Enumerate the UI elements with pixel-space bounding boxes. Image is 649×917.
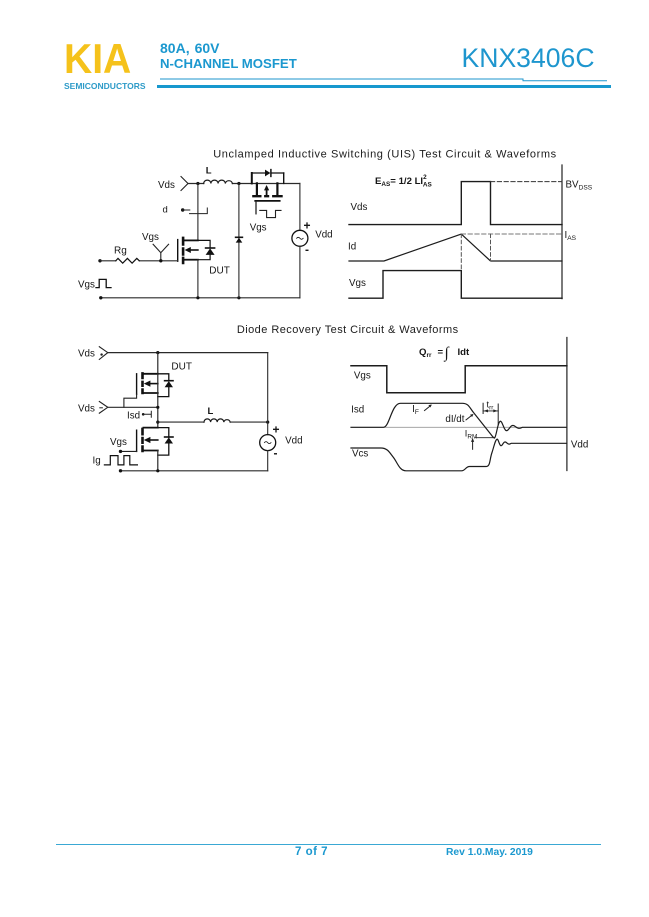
transistor Q2 (lower MOSFET) bbox=[137, 428, 158, 453]
wire: gate feed bbox=[100, 260, 178, 262]
diode D1 (clamp) bbox=[236, 238, 243, 243]
waveform Vgs trace bbox=[349, 271, 562, 299]
node: junction L wire / right rail bbox=[266, 421, 269, 424]
waveform axis (right vertical) bbox=[561, 165, 563, 299]
dashed IAS level bbox=[461, 233, 562, 235]
node Vds probe top bbox=[99, 347, 108, 360]
wire: DUT drain rail bbox=[197, 184, 199, 241]
wire: right rail lower bbox=[299, 246, 301, 297]
node d probe dot and step glyph bbox=[181, 208, 184, 211]
resistor Rg bbox=[116, 258, 139, 263]
svg-text:Vcs: Vcs bbox=[352, 449, 368, 460]
gate bar of Q1 bbox=[255, 200, 280, 202]
svg-text:d: d bbox=[163, 205, 168, 216]
svg-text:Unclamped Inductive Switching: Unclamped Inductive Switching (UIS) Test… bbox=[213, 149, 557, 161]
wire: right rail lower bbox=[267, 451, 269, 471]
node: junction bottom / source rail bbox=[156, 469, 159, 472]
wire: DUT source rail bbox=[197, 260, 199, 298]
svg-text:BVDSS: BVDSS bbox=[566, 180, 593, 192]
dashed marker at avalanche start bbox=[460, 234, 462, 271]
svg-text:-: - bbox=[274, 446, 278, 460]
svg-text:Qrr=: Qrr= bbox=[419, 347, 443, 359]
node Vds probe middle bbox=[99, 402, 108, 414]
source V1 Vdd bbox=[292, 230, 308, 246]
waveform Vgs2 trace bbox=[351, 366, 567, 393]
svg-text:∫: ∫ bbox=[444, 345, 451, 362]
wire: DUT2 gate tie to source bbox=[124, 394, 137, 407]
node: bottom left terminal bbox=[99, 296, 102, 299]
svg-text:Vds: Vds bbox=[351, 202, 368, 213]
svg-text:DUT: DUT bbox=[209, 266, 230, 277]
waveform Vds trace bbox=[349, 182, 562, 225]
wire: Q1 gate lead bbox=[255, 202, 257, 214]
svg-text:Vds: Vds bbox=[158, 180, 175, 191]
footer revision bbox=[446, 847, 533, 858]
wire: L branch bbox=[158, 421, 268, 423]
wire: bottom rail bbox=[121, 470, 268, 472]
svg-text:Vgs: Vgs bbox=[110, 437, 127, 448]
node: junction top wire / DUT drain bbox=[196, 182, 199, 185]
body diode of DUT bbox=[198, 240, 210, 259]
wire: top rail bbox=[108, 352, 268, 354]
wire: middle probe feed bbox=[108, 406, 158, 408]
svg-text:trr: trr bbox=[487, 399, 495, 411]
svg-text:Diode Recovery Test Circuit &: Diode Recovery Test Circuit & Waveforms bbox=[237, 324, 459, 336]
footer page number bbox=[295, 846, 328, 858]
header device type bbox=[160, 56, 297, 71]
wire: main vertical rail (drain) bbox=[157, 353, 159, 374]
node Vgs pulse glyph bbox=[96, 279, 111, 287]
node: junction bottom / clamp rail bbox=[237, 296, 240, 299]
waveform Id trace bbox=[349, 234, 562, 261]
svg-text:Idt: Idt bbox=[458, 347, 471, 358]
node Q1 gate pulse glyph bbox=[260, 210, 281, 217]
wire: bottom rail bbox=[101, 297, 300, 299]
svg-text:L: L bbox=[206, 166, 212, 177]
node: Q2 gate terminal bbox=[119, 450, 122, 453]
header rating line bbox=[160, 40, 220, 56]
svg-text:Vgs: Vgs bbox=[78, 280, 95, 291]
body diode of Q2 bbox=[158, 428, 169, 456]
svg-text:IAS: IAS bbox=[565, 230, 577, 242]
svg-text:DUT: DUT bbox=[171, 361, 192, 372]
inductor L2 bbox=[204, 419, 230, 422]
transistor DUT (N-MOSFET) bbox=[178, 237, 198, 265]
svg-text:+: + bbox=[304, 219, 311, 233]
wire: right rail upper bbox=[299, 183, 301, 230]
svg-text:Vdd: Vdd bbox=[285, 435, 302, 446]
transistor DUT2 (upper MOSFET) bbox=[137, 372, 158, 394]
node Vds probe (top left) bbox=[181, 177, 188, 191]
node: junction middle probe / rail bbox=[156, 406, 159, 409]
svg-text:Vdd: Vdd bbox=[571, 439, 588, 450]
waveform Vcs trace bbox=[351, 439, 567, 471]
node trr measure ticks bbox=[483, 403, 498, 424]
svg-text:Rg: Rg bbox=[114, 246, 127, 257]
wire: top rail bbox=[188, 183, 300, 185]
node: bottom left terminal bbox=[119, 469, 122, 472]
node: gate wire left terminal bbox=[98, 259, 101, 262]
wire: Q2 source rail bbox=[157, 451, 159, 471]
svg-text:-: - bbox=[305, 243, 309, 257]
svg-text:+: + bbox=[273, 423, 280, 437]
node Ig double pulse glyph bbox=[104, 456, 137, 465]
svg-text:Vgs: Vgs bbox=[354, 371, 371, 382]
dashed marker at avalanche end bbox=[490, 234, 492, 261]
dashed BVdss level bbox=[491, 181, 563, 183]
svg-text:Ig: Ig bbox=[93, 455, 101, 466]
svg-text:Vds: Vds bbox=[78, 403, 95, 414]
header thick rule bbox=[157, 85, 611, 88]
wire: right rail upper bbox=[267, 353, 269, 435]
svg-text:Vds: Vds bbox=[78, 349, 95, 360]
svg-text:Isd: Isd bbox=[127, 410, 140, 421]
svg-text:L: L bbox=[208, 406, 214, 417]
wire: clamp diode rail bbox=[238, 184, 240, 298]
node: junction top wire / clamp diode rail bbox=[237, 182, 240, 185]
svg-text:Id: Id bbox=[348, 241, 356, 252]
node Vgs probe (Y) bbox=[153, 244, 169, 260]
svg-text:EAS= 1/2 LI2AS: EAS= 1/2 LI2AS bbox=[375, 174, 432, 189]
svg-text:Vgs: Vgs bbox=[142, 232, 159, 243]
waveform Isd trace bbox=[351, 403, 567, 438]
svg-text:Isd: Isd bbox=[351, 405, 364, 416]
svg-text:IRM: IRM bbox=[465, 429, 478, 441]
wire: rail between MOSFETs bbox=[157, 374, 159, 428]
SEMICONDUCTORS logo subtext bbox=[64, 81, 146, 91]
zero reference line bbox=[351, 426, 567, 428]
node trr dimension arrows bbox=[483, 410, 498, 412]
transistor Q1 (top switch, sideways) bbox=[252, 170, 284, 184]
diode of Q1 bbox=[265, 170, 270, 177]
part number KNX3406C bbox=[462, 43, 595, 74]
svg-text:Vgs: Vgs bbox=[250, 223, 267, 234]
KIA logo bbox=[64, 35, 131, 83]
node: junction bottom / DUT source bbox=[196, 296, 199, 299]
node: junction L wire / rail bbox=[156, 421, 159, 424]
Q1 contacts and channel bbox=[252, 183, 283, 196]
footer rule bbox=[56, 844, 601, 845]
svg-text:IF: IF bbox=[412, 404, 419, 416]
header thin rule (stepped) bbox=[0, 0, 649, 100]
node: junction top rail / DUT drain bbox=[156, 351, 159, 354]
inductor L1 bbox=[204, 180, 233, 183]
source V2 Vdd bbox=[260, 435, 276, 451]
svg-text:Vgs: Vgs bbox=[349, 278, 366, 289]
body diode of DUT2 bbox=[158, 374, 169, 397]
svg-text:Vdd: Vdd bbox=[315, 230, 332, 241]
waveform axis 2 (right vertical) bbox=[566, 338, 568, 471]
wire: Q2 gate lead bbox=[121, 450, 137, 452]
svg-text:dI/dt: dI/dt bbox=[445, 414, 464, 425]
